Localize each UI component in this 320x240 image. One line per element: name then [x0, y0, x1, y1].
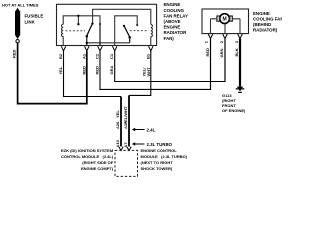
- svg-text:C1: C1: [109, 53, 114, 59]
- svg-text:A26: A26: [115, 121, 120, 129]
- svg-text:COOLING: COOLING: [164, 8, 185, 13]
- svg-text:B2: B2: [58, 53, 63, 59]
- svg-text:RADIATOR: RADIATOR: [164, 30, 188, 35]
- svg-text:C2: C2: [95, 53, 100, 59]
- svg-text:M: M: [223, 17, 227, 23]
- svg-text:ENGINE CONTROL: ENGINE CONTROL: [141, 148, 178, 153]
- svg-text:FUSIBLE: FUSIBLE: [25, 14, 44, 19]
- svg-text:RADIATOR): RADIATOR): [253, 28, 278, 33]
- svg-text:ENGINE: ENGINE: [164, 25, 181, 30]
- svg-text:ENGINE COMPT): ENGINE COMPT): [81, 166, 114, 171]
- svg-text:B1: B1: [145, 53, 150, 59]
- svg-text:COOLING FAN: COOLING FAN: [253, 16, 282, 21]
- svg-text:BLK: BLK: [234, 48, 239, 56]
- svg-text:(RIGHT SIDE OF: (RIGHT SIDE OF: [82, 160, 113, 165]
- svg-text:A1: A1: [81, 53, 86, 59]
- svg-text:MODULE (2.3L TURBO): MODULE (2.3L TURBO): [141, 154, 188, 159]
- svg-text:FAN): FAN): [164, 36, 175, 41]
- svg-text:LINK: LINK: [25, 20, 36, 25]
- svg-text:RED: RED: [95, 66, 100, 75]
- svg-text:RED: RED: [12, 49, 17, 58]
- svg-text:A7: A7: [123, 142, 128, 148]
- svg-text:2.3L TURBO: 2.3L TURBO: [147, 142, 173, 147]
- svg-text:GRA: GRA: [109, 66, 114, 75]
- svg-text:YEL: YEL: [115, 110, 120, 118]
- svg-text:YEL: YEL: [58, 66, 63, 74]
- svg-text:SHOCK TOWER): SHOCK TOWER): [141, 166, 173, 171]
- svg-text:A17: A17: [123, 121, 128, 129]
- svg-text:(ABOVE: (ABOVE: [164, 19, 181, 24]
- svg-text:EZK (DI) IGNITION SYSTEM: EZK (DI) IGNITION SYSTEM: [61, 148, 114, 153]
- svg-text:RED: RED: [205, 48, 210, 57]
- svg-text:WHT: WHT: [146, 67, 151, 77]
- svg-text:GRN: GRN: [219, 49, 224, 58]
- svg-text:OF ENGINE): OF ENGINE): [222, 108, 246, 113]
- svg-text:A10: A10: [115, 139, 120, 147]
- svg-text:2.4L: 2.4L: [147, 128, 156, 133]
- svg-text:FAN RELAY: FAN RELAY: [164, 13, 189, 18]
- svg-text:(NEXT TO RIGHT: (NEXT TO RIGHT: [141, 160, 174, 165]
- svg-text:RED: RED: [81, 66, 86, 75]
- svg-text:ENGINE: ENGINE: [253, 11, 270, 16]
- svg-text:ENGINE: ENGINE: [164, 2, 181, 7]
- svg-text:HOT AT ALL TIMES: HOT AT ALL TIMES: [2, 3, 39, 8]
- svg-text:(BEHIND: (BEHIND: [253, 22, 271, 27]
- svg-text:CONTROL MODULE (2.4L): CONTROL MODULE (2.4L): [61, 154, 114, 159]
